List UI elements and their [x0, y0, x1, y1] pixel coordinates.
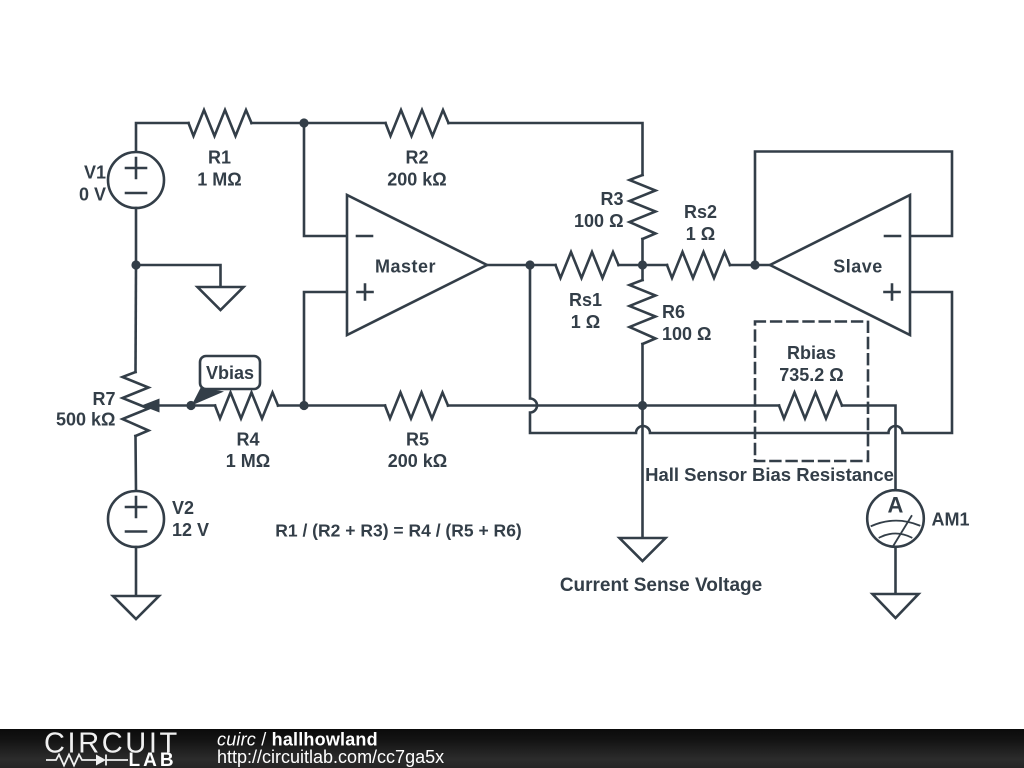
wire R2 to R3 top corner [449, 123, 643, 175]
svg-text:V2: V2 [172, 498, 194, 518]
AM1 meter arcs [872, 521, 920, 526]
wire Master out down and across to Slave plus (with hop) [530, 265, 952, 433]
resistor Rbias [779, 393, 842, 419]
svg-text:1 MΩ: 1 MΩ [197, 169, 241, 189]
ground (current sense) [620, 538, 666, 561]
wire R3 bottom lead [641, 239, 644, 265]
svg-text:Rbias: Rbias [787, 343, 836, 363]
ground (under AM1) [873, 594, 919, 618]
svg-text:LAB: LAB [129, 750, 177, 768]
op-amp U1 Master [347, 195, 487, 335]
CircuitLab logo resistor-diode squiggle [46, 755, 128, 766]
wire node to R2 [304, 122, 386, 125]
svg-text:100 Ω: 100 Ω [662, 324, 711, 344]
svg-text:12 V: 12 V [172, 520, 209, 540]
node junction R4/R5/Master+ [299, 401, 308, 410]
voltage source V2 [108, 491, 164, 547]
svg-text:R3: R3 [600, 189, 623, 209]
svg-text:R2: R2 [405, 148, 428, 168]
resistor R3 [630, 175, 656, 239]
svg-text:1 Ω: 1 Ω [686, 224, 715, 244]
node Vbias flag [192, 387, 225, 406]
node junction R5/R6/Rbias/ground [638, 401, 647, 410]
V2 minus sign [126, 530, 146, 533]
wire Rs1 to center node [619, 264, 668, 267]
wire Master plus input branch [304, 292, 347, 406]
svg-text:A: A [888, 493, 904, 518]
svg-text:200 kΩ: 200 kΩ [388, 451, 447, 471]
wire sense node to ground [641, 406, 644, 539]
wire node to ground stub [136, 265, 221, 287]
AM1 needle [894, 516, 912, 546]
wire Rs2 to Slave output node [730, 264, 770, 267]
resistor R6 [630, 280, 656, 344]
svg-text:R7: R7 [92, 389, 115, 409]
node junction Master output [525, 260, 534, 269]
wire Master output to node [487, 264, 530, 267]
svg-text:1 Ω: 1 Ω [571, 312, 600, 332]
node junction R1/R2/Master- [299, 118, 308, 127]
svg-text:Vbias: Vbias [206, 363, 254, 383]
svg-text:R6: R6 [662, 302, 685, 322]
resistor R4 [215, 393, 278, 419]
Slave minus pin mark [885, 235, 900, 238]
svg-text:Master: Master [375, 257, 436, 277]
wire V1 minus lead to node [135, 208, 138, 265]
node junction wiper/Vbias [186, 401, 195, 410]
wire Slave feedback loop [755, 152, 952, 266]
wire inverting input branch (node x304 down to Master minus) [304, 123, 347, 236]
svg-text:1 MΩ: 1 MΩ [226, 451, 270, 471]
svg-text:R5: R5 [406, 430, 429, 450]
wire R4 to node x304 [278, 404, 304, 407]
V1 plus sign [126, 158, 146, 178]
svg-text:100 Ω: 100 Ω [574, 211, 623, 231]
wire R7 bottom lead to V2 [134, 436, 137, 491]
svg-text:Current Sense Voltage: Current Sense Voltage [560, 575, 762, 596]
svg-text:R1: R1 [208, 148, 231, 168]
footer bar [0, 729, 1024, 768]
resistor R1 [189, 110, 252, 136]
dashed box around Rbias [755, 322, 868, 462]
Master plus pin mark [358, 285, 373, 300]
potentiometer R7 [123, 372, 149, 436]
ammeter AM1 [867, 490, 924, 547]
wire top: V1 plus lead to R1 [136, 123, 189, 152]
wire V2 to ground [135, 547, 138, 596]
node junction Rs2/Slave [750, 260, 759, 269]
node junction R3/Rs1/Rs2/R6 [638, 260, 647, 269]
wire Rbias to ammeter [842, 406, 896, 491]
svg-text:200 kΩ: 200 kΩ [387, 169, 446, 189]
wire R1 to node at x304 [252, 122, 305, 125]
node V1-/R7 junction [131, 260, 140, 269]
Slave plus pin mark [885, 285, 900, 300]
resistor Rs2 [667, 252, 730, 278]
V1 minus sign [126, 192, 146, 195]
svg-text:Rs2: Rs2 [684, 202, 717, 222]
wire node to Rs1 [530, 264, 556, 267]
voltage source V1 [108, 152, 164, 208]
svg-text:R4: R4 [236, 430, 259, 450]
wire sense node to Rbias [643, 404, 780, 407]
svg-text:R1 / (R2 + R3) = R4 / (R5 + R6: R1 / (R2 + R3) = R4 / (R5 + R6) [275, 521, 522, 541]
svg-text:0 V: 0 V [79, 185, 106, 205]
Master minus pin mark [357, 235, 372, 238]
wire bias rail: wiper node to R4 [191, 404, 215, 407]
wire R5 to sense node [448, 404, 643, 407]
svg-text:http://circuitlab.com/cc7ga5x: http://circuitlab.com/cc7ga5x [217, 747, 444, 767]
op-amp U2 Slave (mirrored) [770, 195, 910, 335]
svg-text:Slave: Slave [833, 257, 883, 277]
V2 plus sign [126, 497, 146, 517]
wire node to R5 [304, 404, 385, 407]
svg-text:Rs1: Rs1 [569, 290, 602, 310]
svg-text:V1: V1 [84, 163, 106, 183]
svg-text:AM1: AM1 [932, 510, 970, 530]
svg-text:500 kΩ: 500 kΩ [56, 410, 115, 430]
svg-text:Hall Sensor Bias Resistance: Hall Sensor Bias Resistance [645, 464, 894, 485]
ground (near V1) [198, 287, 244, 310]
wire AM1 to ground [894, 547, 897, 594]
resistor Rs1 [556, 252, 619, 278]
wire node down to R7 [134, 265, 137, 372]
resistor R5 [385, 393, 448, 419]
ground (under V2) [113, 596, 159, 619]
resistor R2 [386, 110, 449, 136]
R7 wiper arrow [157, 404, 191, 407]
svg-text:735.2 Ω: 735.2 Ω [779, 365, 843, 385]
wire R6 top lead [641, 265, 644, 280]
wire R6 bottom lead [641, 344, 644, 406]
